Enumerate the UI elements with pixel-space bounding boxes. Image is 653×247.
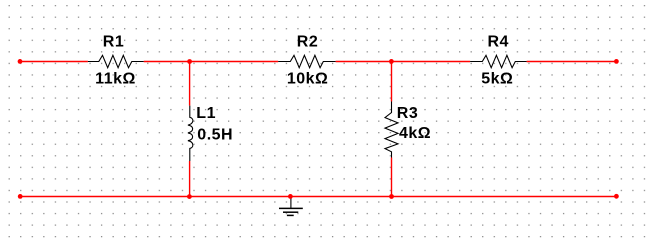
resistor R3 <box>385 102 398 158</box>
resistor R4 <box>470 55 526 67</box>
node: junction L1 top <box>187 59 192 64</box>
resistor R1 <box>88 55 144 67</box>
svg-text:4kΩ: 4kΩ <box>399 125 431 142</box>
wire: L1 branch bottom <box>189 161 191 197</box>
svg-text:R2: R2 <box>297 34 318 51</box>
wire: R3 branch bottom <box>391 158 393 197</box>
wire: top rail segment 3 (R2 to R4) <box>336 61 471 63</box>
svg-text:0.5H: 0.5H <box>197 126 233 143</box>
node: junction R3 bottom <box>389 194 394 199</box>
node: bottom-left terminal <box>18 194 23 199</box>
wire: bottom rail <box>20 196 617 198</box>
node: junction R3 top <box>389 59 394 64</box>
svg-text:R4: R4 <box>487 34 508 51</box>
node: top-right terminal <box>614 59 619 64</box>
wire: top rail segment 2 (R1 to R2) <box>144 61 279 63</box>
node: bottom-right terminal <box>614 194 619 199</box>
svg-text:R1: R1 <box>103 34 124 51</box>
node: junction L1 bottom <box>187 194 192 199</box>
inductor L1 <box>188 106 193 161</box>
svg-text:11kΩ: 11kΩ <box>95 71 136 88</box>
node: junction ground <box>288 194 293 199</box>
wire: top rail segment 4 (R4 to right terminal) <box>527 61 617 63</box>
svg-text:L1: L1 <box>196 105 216 122</box>
wire: L1 branch top <box>189 62 191 106</box>
svg-text:R3: R3 <box>397 105 418 122</box>
node: top-left terminal <box>18 59 23 64</box>
ground <box>279 197 303 216</box>
resistor R2 <box>278 55 335 67</box>
wire: top rail segment 1 (left terminal to R1) <box>20 61 88 63</box>
svg-text:5kΩ: 5kΩ <box>481 71 513 88</box>
svg-text:10kΩ: 10kΩ <box>287 71 329 88</box>
wire: R3 branch top <box>391 62 393 102</box>
